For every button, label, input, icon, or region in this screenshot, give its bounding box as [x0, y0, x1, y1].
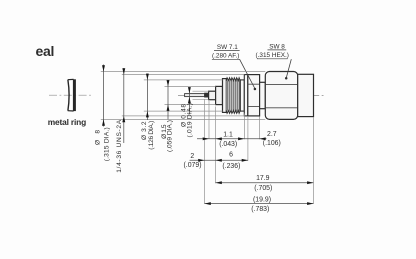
- bottom extension line x259.4: [258, 117, 260, 140]
- bottom extension line A x204.5: [204, 99, 206, 204]
- svg-text:2.7: 2.7: [267, 131, 277, 138]
- bottom extension line x313.4: [312, 117, 314, 204]
- step dia 1.5: [209, 91, 216, 100]
- SW 8 label: [256, 43, 289, 59]
- svg-text:SW 7.1: SW 7.1: [217, 44, 238, 51]
- svg-text:Ø 8: Ø 8: [95, 130, 102, 145]
- main centerline: [178, 94, 326, 96]
- svg-text:1/4-36 UNS-2A: 1/4-36 UNS-2A: [116, 119, 123, 173]
- svg-text:17.9: 17.9: [256, 175, 270, 182]
- SW 7.1 label: [212, 44, 239, 60]
- svg-text:(.059 DIA.): (.059 DIA.): [166, 120, 173, 152]
- dim dia 8 labels: [95, 127, 111, 161]
- left extension lines step 3.2: [165, 86, 216, 104]
- dia 1.5 labels: [161, 120, 174, 152]
- SW 8 leader: [286, 59, 291, 77]
- svg-text:(.315 HEX.): (.315 HEX.): [256, 52, 289, 59]
- dia 3.2 labels: [141, 121, 155, 150]
- svg-text:eal: eal: [36, 43, 55, 59]
- svg-text:SW 8: SW 8: [269, 43, 285, 50]
- pin base block: [205, 93, 209, 97]
- metal ring cross-section: [68, 79, 75, 111]
- svg-text:(19.9): (19.9): [253, 196, 271, 203]
- svg-text:(.106): (.106): [263, 140, 281, 147]
- dim dia 8 vertical line: [102, 65, 105, 127]
- left extension lines hex7.1: [122, 75, 245, 116]
- bottom extension line B x215.5: [215, 107, 217, 184]
- dim row 17.9: [216, 181, 314, 184]
- svg-text:(.315 DIA.): (.315 DIA.): [104, 127, 111, 161]
- step 1.5 extension lines: [193, 91, 209, 100]
- center pin: [185, 94, 205, 97]
- bottom extension line x244.4: [243, 114, 245, 140]
- dim sw7.1 vertical line: [122, 68, 125, 143]
- svg-text:(.126 DIA.): (.126 DIA.): [148, 121, 155, 150]
- metal ring centerline: [49, 94, 93, 96]
- hex body SW 8: [265, 72, 297, 120]
- thread runout: [240, 80, 244, 111]
- svg-text:2: 2: [190, 153, 194, 160]
- bottom extension line x248: [247, 117, 249, 161]
- SW 7.1 leader: [240, 59, 255, 88]
- svg-text:6: 6: [229, 151, 233, 158]
- neck groove: [260, 82, 266, 108]
- svg-text:(.783): (.783): [251, 206, 269, 213]
- dim row 19.9: [205, 202, 314, 205]
- dia 0.48 labels: [181, 103, 194, 138]
- step dia 3.2: [216, 86, 223, 104]
- bottom extension line x209: [208, 101, 210, 139]
- dim dia 0.48 pin: [188, 87, 191, 114]
- svg-text:(.043): (.043): [219, 141, 237, 148]
- dim thread od vertical line: [146, 74, 149, 121]
- svg-text:(.705): (.705): [254, 185, 272, 192]
- hex nut SW 7.1: [248, 75, 260, 116]
- svg-text:(.079): (.079): [183, 162, 201, 169]
- svg-text:(.236): (.236): [222, 163, 240, 170]
- rear cylinder: [298, 74, 314, 116]
- connector body front shoulder: [223, 79, 227, 113]
- svg-text:1.1: 1.1: [223, 131, 233, 138]
- dim row 1.1 / 2.7: [197, 137, 267, 140]
- svg-text:(.280 AF.): (.280 AF.): [212, 53, 239, 60]
- svg-text:Ø 3.2: Ø 3.2: [141, 121, 148, 140]
- hex nut SW 7.1 collar: [244, 75, 248, 116]
- dim dia 3.2 vertical line: [167, 80, 170, 120]
- thread 1/4-36 section: [226, 78, 240, 114]
- svg-text:(.019 DIA.): (.019 DIA.): [187, 103, 194, 138]
- left extension lines hex8: [101, 72, 265, 120]
- svg-text:metal ring: metal ring: [48, 117, 86, 127]
- dim row 2 / 6: [190, 159, 249, 162]
- left extension lines thread od: [144, 80, 223, 111]
